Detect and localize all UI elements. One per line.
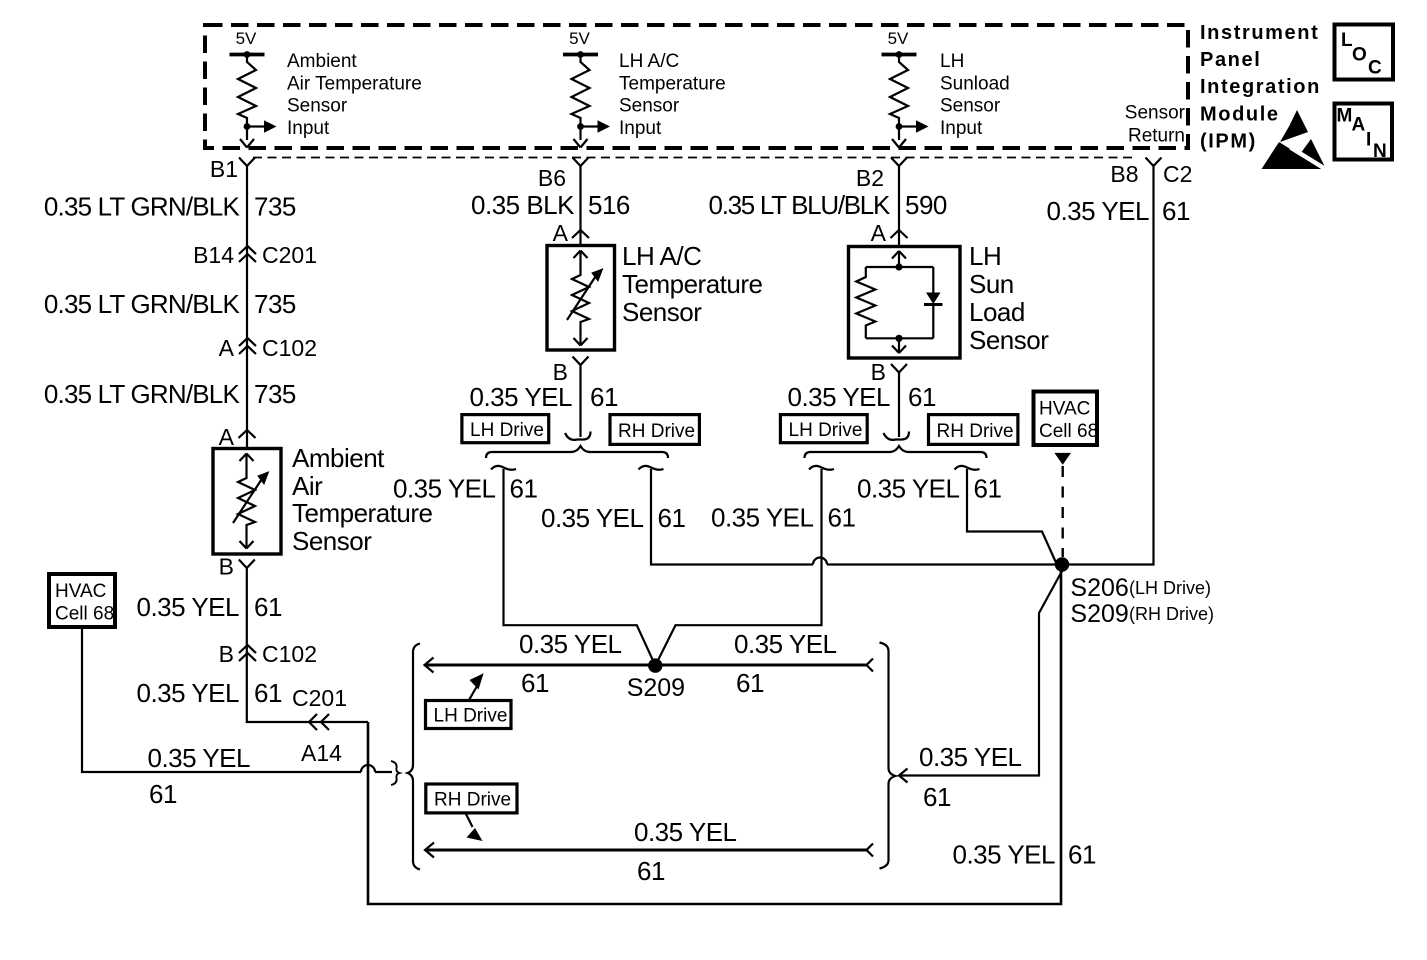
- svg-text:5V: 5V: [888, 29, 909, 48]
- svg-text:Ambient: Ambient: [287, 51, 357, 72]
- svg-text:Sun: Sun: [969, 269, 1014, 299]
- svg-text:0.35 YEL: 0.35 YEL: [147, 743, 250, 773]
- svg-text:HVAC: HVAC: [1039, 399, 1090, 420]
- svg-text:735: 735: [254, 289, 296, 319]
- svg-text:61: 61: [590, 382, 618, 412]
- svg-text:61: 61: [1162, 196, 1190, 226]
- svg-text:0.35 YEL: 0.35 YEL: [136, 678, 239, 708]
- svg-text:C2: C2: [1163, 161, 1192, 187]
- svg-text:61: 61: [149, 779, 177, 809]
- svg-text:Sensor: Sensor: [292, 526, 372, 556]
- svg-text:S209: S209: [627, 674, 685, 702]
- svg-text:Return: Return: [1128, 126, 1185, 147]
- svg-text:0.35 BLK: 0.35 BLK: [471, 190, 575, 220]
- svg-text:0.35 YEL: 0.35 YEL: [634, 817, 737, 847]
- svg-text:A: A: [1352, 115, 1366, 136]
- svg-text:61: 61: [1068, 840, 1096, 870]
- svg-text:Sensor: Sensor: [940, 96, 1001, 117]
- svg-text:B6: B6: [538, 165, 566, 191]
- svg-text:590: 590: [905, 190, 947, 220]
- svg-text:Air Temperature: Air Temperature: [287, 73, 422, 94]
- svg-text:(RH Drive): (RH Drive): [1129, 604, 1214, 624]
- svg-text:0.35 YEL: 0.35 YEL: [136, 592, 239, 622]
- svg-text:Input: Input: [619, 118, 662, 139]
- svg-text:M: M: [1337, 106, 1353, 127]
- svg-text:B2: B2: [856, 165, 884, 191]
- svg-text:0.35 YEL: 0.35 YEL: [519, 629, 622, 659]
- svg-text:C201: C201: [262, 242, 317, 268]
- svg-text:61: 61: [658, 503, 686, 533]
- svg-text:0.35 YEL: 0.35 YEL: [469, 382, 572, 412]
- svg-text:Sensor: Sensor: [969, 325, 1049, 355]
- svg-text:61: 61: [923, 782, 951, 812]
- svg-text:61: 61: [736, 668, 764, 698]
- svg-text:0.35 YEL: 0.35 YEL: [919, 742, 1022, 772]
- svg-text:0.35 YEL: 0.35 YEL: [541, 503, 644, 533]
- svg-text:Cell 68: Cell 68: [1039, 421, 1098, 442]
- svg-text:Input: Input: [940, 118, 983, 139]
- svg-text:(LH Drive): (LH Drive): [1129, 578, 1211, 598]
- svg-text:C: C: [1368, 58, 1382, 79]
- svg-text:RH Drive: RH Drive: [937, 421, 1014, 442]
- svg-text:Sensor: Sensor: [287, 96, 348, 117]
- svg-text:Temperature: Temperature: [622, 269, 762, 299]
- svg-text:Air: Air: [292, 471, 323, 501]
- svg-text:0.35 LT GRN/BLK: 0.35 LT GRN/BLK: [44, 379, 241, 409]
- svg-text:B14: B14: [193, 242, 234, 268]
- svg-text:0.35 YEL: 0.35 YEL: [952, 840, 1055, 870]
- svg-text:0.35 YEL: 0.35 YEL: [787, 382, 890, 412]
- svg-text:B1: B1: [210, 156, 238, 182]
- svg-text:A: A: [219, 335, 235, 361]
- svg-text:O: O: [1352, 45, 1367, 66]
- svg-text:Load: Load: [969, 297, 1025, 327]
- svg-text:RH Drive: RH Drive: [618, 421, 695, 442]
- svg-text:0.35 YEL: 0.35 YEL: [393, 474, 496, 504]
- svg-text:61: 61: [908, 382, 936, 412]
- svg-text:Sensor: Sensor: [1125, 103, 1186, 124]
- svg-text:0.35 LT GRN/BLK: 0.35 LT GRN/BLK: [44, 192, 241, 222]
- svg-text:61: 61: [521, 668, 549, 698]
- svg-text:LH Drive: LH Drive: [789, 420, 863, 441]
- svg-text:A: A: [553, 220, 569, 246]
- svg-text:S209: S209: [1070, 600, 1128, 628]
- svg-text:61: 61: [254, 678, 282, 708]
- svg-text:Instrument: Instrument: [1200, 22, 1319, 44]
- svg-text:0.35 LT BLU/BLK: 0.35 LT BLU/BLK: [709, 190, 891, 220]
- svg-text:Sensor: Sensor: [619, 96, 680, 117]
- svg-text:61: 61: [510, 474, 538, 504]
- svg-text:0.35 YEL: 0.35 YEL: [734, 629, 837, 659]
- svg-text:61: 61: [828, 503, 856, 533]
- svg-text:B: B: [219, 554, 234, 580]
- svg-text:5V: 5V: [236, 29, 257, 48]
- svg-text:Panel: Panel: [1200, 49, 1261, 71]
- svg-text:Temperature: Temperature: [619, 73, 726, 94]
- svg-text:Integration: Integration: [1200, 76, 1321, 98]
- svg-text:C102: C102: [262, 335, 317, 361]
- svg-text:A14: A14: [301, 740, 342, 766]
- svg-text:Cell 68: Cell 68: [55, 604, 114, 625]
- svg-text:B8: B8: [1110, 161, 1138, 187]
- svg-text:LH A/C: LH A/C: [622, 241, 701, 271]
- svg-text:516: 516: [588, 190, 630, 220]
- svg-text:Module: Module: [1200, 104, 1280, 126]
- svg-text:735: 735: [254, 192, 296, 222]
- svg-text:Sunload: Sunload: [940, 73, 1010, 94]
- svg-text:LH: LH: [969, 241, 1001, 271]
- svg-text:61: 61: [637, 856, 665, 886]
- svg-text:61: 61: [974, 474, 1002, 504]
- svg-text:C201: C201: [292, 685, 347, 711]
- svg-text:LH Drive: LH Drive: [470, 420, 544, 441]
- svg-text:735: 735: [254, 379, 296, 409]
- svg-text:Ambient: Ambient: [292, 443, 385, 473]
- svg-text:0.35 YEL: 0.35 YEL: [711, 503, 814, 533]
- svg-text:A: A: [219, 424, 235, 450]
- svg-text:Sensor: Sensor: [622, 297, 702, 327]
- svg-text:Input: Input: [287, 118, 330, 139]
- svg-text:LH Drive: LH Drive: [434, 706, 508, 727]
- svg-text:C102: C102: [262, 641, 317, 667]
- svg-text:0.35 YEL: 0.35 YEL: [1046, 196, 1149, 226]
- svg-text:B: B: [219, 641, 234, 667]
- svg-text:HVAC: HVAC: [55, 581, 106, 602]
- svg-text:S206: S206: [1070, 574, 1128, 602]
- svg-text:RH Drive: RH Drive: [434, 790, 511, 811]
- svg-text:LH A/C: LH A/C: [619, 51, 679, 72]
- svg-text:(IPM): (IPM): [1200, 131, 1257, 153]
- svg-text:A: A: [871, 220, 887, 246]
- svg-text:61: 61: [254, 592, 282, 622]
- svg-text:5V: 5V: [569, 29, 590, 48]
- svg-text:N: N: [1373, 141, 1387, 162]
- svg-text:0.35 YEL: 0.35 YEL: [857, 474, 960, 504]
- svg-text:0.35 LT GRN/BLK: 0.35 LT GRN/BLK: [44, 289, 241, 319]
- svg-text:LH: LH: [940, 51, 964, 72]
- svg-text:I: I: [1366, 130, 1371, 151]
